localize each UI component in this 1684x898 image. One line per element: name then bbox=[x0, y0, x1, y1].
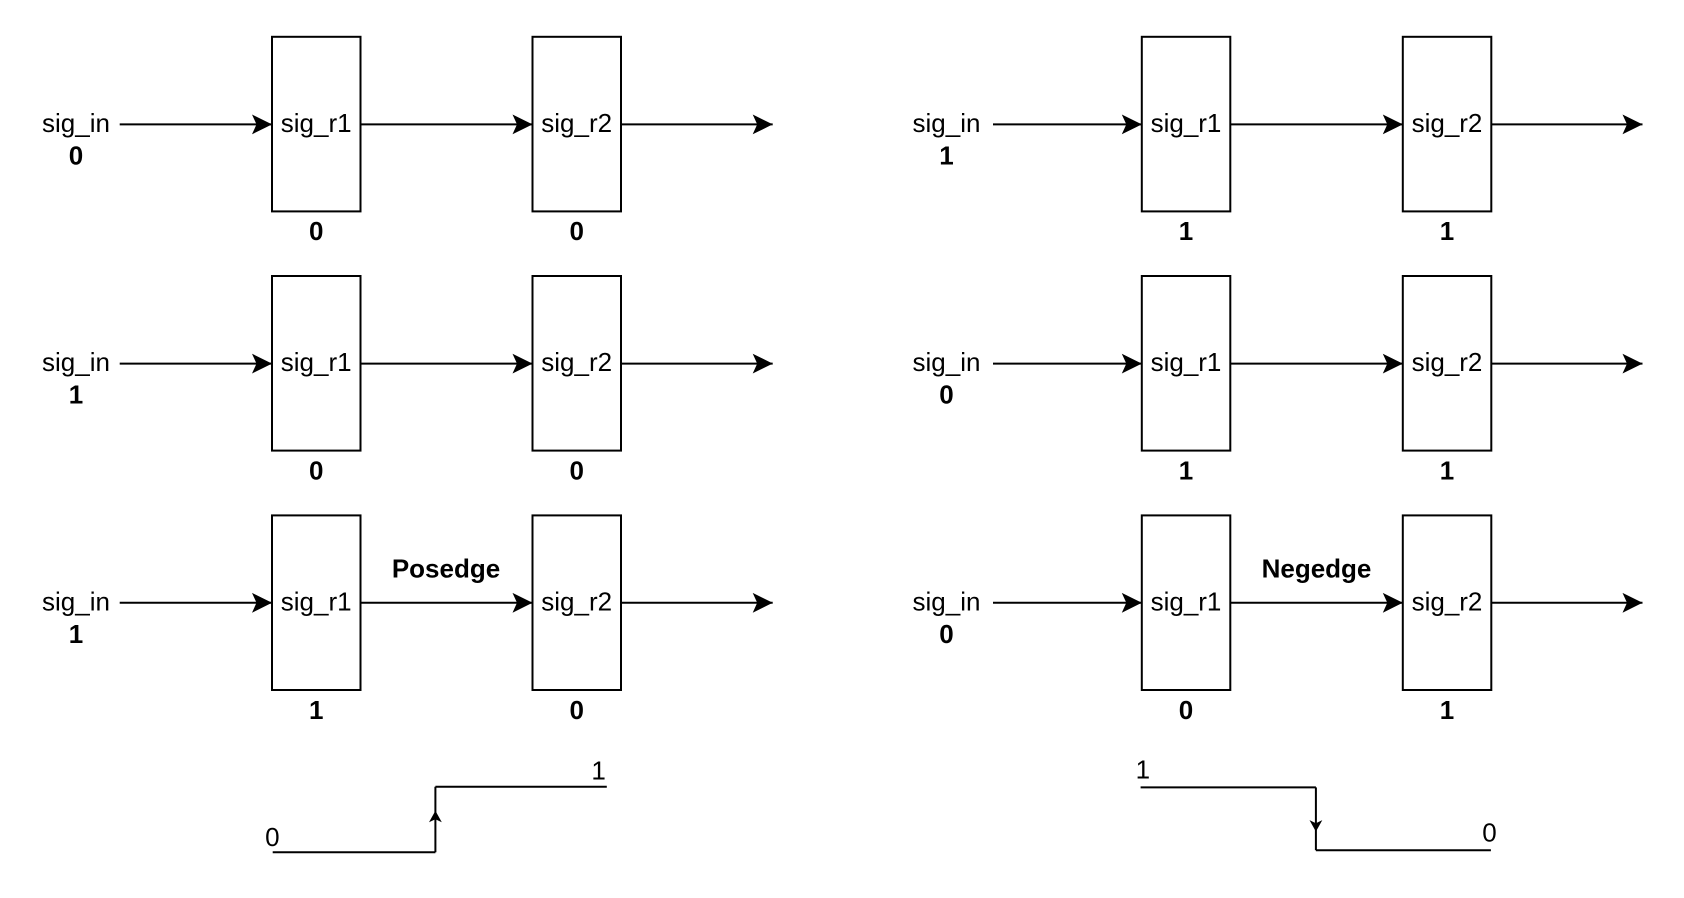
svg-text:sig_r1: sig_r1 bbox=[1151, 108, 1222, 138]
register sig_r1 (left row 3) bbox=[272, 515, 361, 690]
negedge waveform falling edge segment bbox=[1315, 787, 1317, 850]
wire sig_r2 output (left row 3) bbox=[621, 602, 773, 604]
svg-text:1: 1 bbox=[591, 755, 605, 785]
svg-text:sig_r1: sig_r1 bbox=[281, 108, 352, 138]
svg-text:0: 0 bbox=[939, 619, 953, 649]
wire sig_r1 to sig_r2 (right row 3) bbox=[1230, 602, 1403, 604]
wire sig_r2 output (right row 2) bbox=[1491, 363, 1642, 365]
svg-text:sig_r2: sig_r2 bbox=[541, 347, 612, 377]
register sig_r1 (left row 1) bbox=[272, 37, 361, 212]
wire sig_in to sig_r1 (left row 3) bbox=[120, 602, 272, 604]
negedge waveform low level segment bbox=[1316, 849, 1491, 851]
svg-text:sig_r2: sig_r2 bbox=[1412, 347, 1483, 377]
svg-text:sig_r1: sig_r1 bbox=[1151, 347, 1222, 377]
svg-text:0: 0 bbox=[569, 455, 583, 485]
wire sig_in to sig_r1 (right row 3) bbox=[993, 602, 1142, 604]
register sig_r2 (right row 3) bbox=[1403, 515, 1492, 690]
svg-text:sig_in: sig_in bbox=[42, 347, 110, 377]
svg-text:0: 0 bbox=[569, 216, 583, 246]
register sig_r2 (left row 2) bbox=[533, 276, 622, 451]
svg-text:0: 0 bbox=[69, 141, 83, 171]
register sig_r2 (right row 1) bbox=[1403, 37, 1492, 212]
wire sig_in to sig_r1 (left row 2) bbox=[120, 363, 272, 365]
register sig_r2 (right row 2) bbox=[1403, 276, 1492, 451]
register sig_r1 (right row 2) bbox=[1142, 276, 1231, 451]
svg-text:1: 1 bbox=[69, 380, 83, 410]
negedge waveform high level segment bbox=[1141, 786, 1316, 788]
register sig_r1 (right row 3) bbox=[1142, 515, 1231, 690]
posedge waveform high level segment bbox=[435, 786, 606, 788]
svg-text:0: 0 bbox=[309, 455, 323, 485]
svg-text:Negedge: Negedge bbox=[1262, 553, 1372, 583]
register sig_r1 (right row 1) bbox=[1142, 37, 1231, 212]
svg-text:sig_r2: sig_r2 bbox=[541, 586, 612, 616]
svg-text:sig_r2: sig_r2 bbox=[1412, 586, 1483, 616]
svg-text:1: 1 bbox=[939, 141, 953, 171]
svg-text:sig_in: sig_in bbox=[42, 108, 110, 138]
posedge waveform low level segment bbox=[273, 851, 436, 853]
svg-text:sig_in: sig_in bbox=[913, 347, 981, 377]
svg-text:sig_r2: sig_r2 bbox=[541, 108, 612, 138]
wire sig_r2 output (right row 3) bbox=[1491, 602, 1642, 604]
svg-text:1: 1 bbox=[309, 695, 323, 725]
svg-text:1: 1 bbox=[1179, 455, 1193, 485]
wire sig_in to sig_r1 (right row 1) bbox=[993, 123, 1142, 125]
posedge waveform rising edge segment bbox=[434, 787, 436, 853]
svg-text:sig_in: sig_in bbox=[913, 586, 981, 616]
register sig_r2 (left row 3) bbox=[533, 515, 622, 690]
svg-text:sig_r2: sig_r2 bbox=[1412, 108, 1483, 138]
wire sig_in to sig_r1 (right row 2) bbox=[993, 363, 1142, 365]
wire sig_r2 output (left row 2) bbox=[621, 363, 773, 365]
wire sig_r1 to sig_r2 (right row 1) bbox=[1230, 123, 1403, 125]
svg-text:1: 1 bbox=[1440, 216, 1454, 246]
wire sig_r1 to sig_r2 (left row 3) bbox=[361, 602, 533, 604]
wire sig_r1 to sig_r2 (right row 2) bbox=[1230, 363, 1403, 365]
svg-text:sig_r1: sig_r1 bbox=[1151, 586, 1222, 616]
svg-text:1: 1 bbox=[69, 619, 83, 649]
wire sig_r2 output (left row 1) bbox=[621, 123, 773, 125]
svg-text:0: 0 bbox=[569, 695, 583, 725]
svg-text:sig_in: sig_in bbox=[913, 108, 981, 138]
svg-text:0: 0 bbox=[1482, 818, 1496, 848]
posedge waveform rising edge mid arrowhead bbox=[429, 811, 442, 823]
svg-text:sig_r1: sig_r1 bbox=[281, 347, 352, 377]
register sig_r1 (left row 2) bbox=[272, 276, 361, 451]
svg-text:1: 1 bbox=[1179, 216, 1193, 246]
wire sig_r1 to sig_r2 (left row 1) bbox=[361, 123, 533, 125]
svg-text:0: 0 bbox=[939, 380, 953, 410]
svg-text:0: 0 bbox=[1179, 695, 1193, 725]
svg-text:0: 0 bbox=[309, 216, 323, 246]
register sig_r2 (left row 1) bbox=[533, 37, 622, 212]
svg-text:0: 0 bbox=[265, 822, 279, 852]
negedge waveform falling edge mid arrowhead bbox=[1310, 820, 1323, 832]
svg-text:Posedge: Posedge bbox=[392, 553, 500, 583]
svg-text:sig_r1: sig_r1 bbox=[281, 586, 352, 616]
svg-text:sig_in: sig_in bbox=[42, 586, 110, 616]
wire sig_r2 output (right row 1) bbox=[1491, 123, 1642, 125]
wire sig_in to sig_r1 (left row 1) bbox=[120, 123, 272, 125]
wire sig_r1 to sig_r2 (left row 2) bbox=[361, 363, 533, 365]
svg-text:1: 1 bbox=[1440, 695, 1454, 725]
svg-text:1: 1 bbox=[1136, 755, 1150, 785]
svg-text:1: 1 bbox=[1440, 455, 1454, 485]
